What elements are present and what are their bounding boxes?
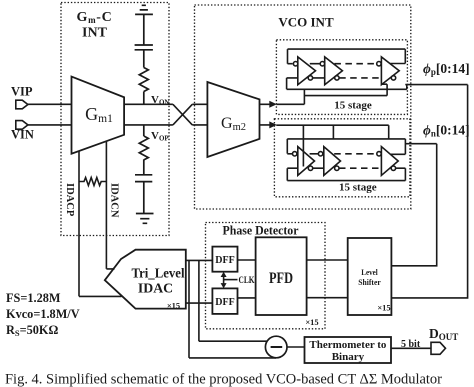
svg-text:ϕp[0:14]: ϕp[0:14] xyxy=(423,61,470,77)
svg-text:Fig. 4. Simplified schematic o: Fig. 4. Simplified schematic of the prop… xyxy=(5,372,442,387)
svg-text:VIN: VIN xyxy=(11,128,34,142)
svg-text:15 stage: 15 stage xyxy=(334,100,372,112)
svg-text:Kvco=1.8M/V: Kvco=1.8M/V xyxy=(6,307,80,321)
svg-text:Shifter: Shifter xyxy=(358,278,381,287)
svg-text:15 stage: 15 stage xyxy=(339,182,377,194)
svg-text:CLK: CLK xyxy=(239,276,255,286)
svg-text:×15: ×15 xyxy=(305,317,318,327)
svg-text:IDACN: IDACN xyxy=(109,183,120,218)
svg-text:×15: ×15 xyxy=(377,303,390,313)
svg-text:ϕn[0:14]: ϕn[0:14] xyxy=(423,123,470,139)
svg-text:×15: ×15 xyxy=(167,301,180,311)
svg-text:Phase Detector: Phase Detector xyxy=(223,224,299,238)
svg-text:Tri_Level: Tri_Level xyxy=(132,266,185,281)
svg-text:FS=1.28M: FS=1.28M xyxy=(6,291,61,305)
svg-text:IDACP: IDACP xyxy=(64,183,75,217)
svg-text:Level: Level xyxy=(361,268,378,277)
svg-text:5 bit: 5 bit xyxy=(401,339,421,350)
svg-text:RS=50KΩ: RS=50KΩ xyxy=(6,323,58,338)
svg-text:DFF: DFF xyxy=(215,255,234,266)
svg-text:INT: INT xyxy=(82,26,108,41)
svg-text:IDAC: IDAC xyxy=(138,281,173,296)
svg-text:VCO INT: VCO INT xyxy=(278,15,334,30)
svg-text:Binary: Binary xyxy=(332,351,365,363)
svg-text:PFD: PFD xyxy=(269,270,293,287)
svg-text:Thermometer to: Thermometer to xyxy=(309,339,387,351)
svg-text:VIP: VIP xyxy=(11,85,33,99)
svg-text:DFF: DFF xyxy=(215,297,234,308)
